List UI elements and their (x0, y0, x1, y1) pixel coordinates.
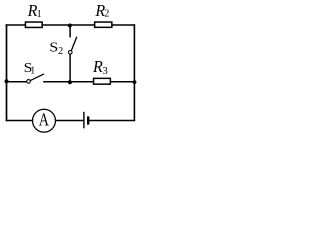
wire: left vertical side of loop (6, 24, 8, 121)
ammeter A body (33, 109, 56, 132)
wire: bottom segment ammeter to battery (56, 120, 84, 122)
svg-text:S: S (49, 41, 58, 56)
wire: S2 branch upper stub (69, 25, 71, 37)
wire: top segment R1 to R2 (43, 24, 95, 26)
svg-text:1: 1 (30, 66, 35, 77)
wire: bottom-right segment battery to corner (89, 120, 135, 122)
svg-text:2: 2 (58, 46, 63, 57)
wire: bottom-left segment to ammeter (6, 120, 33, 122)
node: junction dot on right wire (133, 80, 137, 84)
wire: top-right segment R2 to corner (112, 24, 135, 26)
wire: S2 branch lower stub (69, 54, 71, 83)
switch S2 blade (71, 37, 77, 51)
svg-text:A: A (39, 110, 49, 130)
svg-text:3: 3 (103, 66, 108, 77)
resistor R3 (94, 78, 111, 84)
svg-text:2: 2 (104, 9, 109, 20)
svg-text:1: 1 (37, 9, 42, 20)
node: junction dot on left wire (5, 79, 9, 83)
svg-text:R: R (92, 57, 103, 76)
switch S2 pivot circle (69, 51, 73, 55)
battery short plate (87, 116, 89, 124)
node: junction dot middle wire / S2 branch (68, 80, 72, 84)
wire: right vertical side of loop (133, 24, 135, 121)
switch S1 blade (30, 74, 44, 81)
wire: top-left segment to R1 (6, 24, 26, 26)
battery long plate (83, 112, 85, 129)
wire: middle segment S1 to R3 (43, 81, 93, 83)
resistor R2 (95, 22, 112, 27)
node: junction dot on top wire (68, 24, 72, 28)
resistor R1 (25, 22, 42, 27)
switch S1 pivot circle (27, 80, 31, 84)
wire: middle-right segment R3 to right wire (110, 81, 135, 83)
wire: middle-left stub to S1 (6, 81, 27, 83)
